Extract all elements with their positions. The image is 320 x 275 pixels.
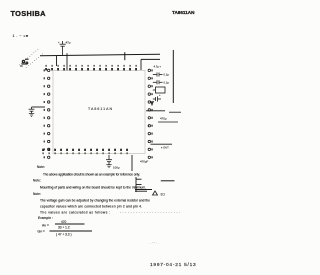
wire: speaker top rail	[161, 180, 175, 182]
capacitor C1 (47uF on bus)	[60, 41, 66, 56]
op-amp IC U1 body outline	[53, 71, 145, 154]
svg-text:capacitor values which are con: capacitor values which are connected bet…	[40, 205, 142, 209]
svg-text:( 47 + 3.3 ): ( 47 + 3.3 )	[56, 233, 72, 237]
svg-text:470μF: 470μF	[140, 160, 148, 164]
svg-text:The voltage gain can be adjust: The voltage gain can be adjusted by chan…	[40, 199, 150, 203]
svg-text:Example :: Example :	[38, 216, 53, 220]
svg-text:The above application circuit: The above application circuit is shown a…	[43, 173, 140, 177]
svg-text:Av =: Av =	[42, 223, 49, 227]
svg-text:Note:: Note:	[33, 179, 41, 183]
ground: left cap ground	[29, 114, 34, 117]
svg-text:+: +	[159, 94, 161, 97]
wire: main top bus (VCC)	[40, 54, 160, 59]
speaker SP1	[153, 191, 158, 195]
svg-text:TA8611AN: TA8611AN	[88, 107, 112, 111]
svg-text:Note:: Note:	[33, 192, 41, 196]
svg-text:TA8611AN: TA8611AN	[172, 10, 195, 15]
svg-text:The values are calculated as f: The values are calculated as follows :	[40, 210, 110, 214]
svg-text:4.7μ +: 4.7μ +	[154, 65, 162, 69]
svg-text:8Ω: 8Ω	[161, 193, 166, 197]
U1 bottom pin row	[42, 149, 128, 155]
svg-text:1 . ~ =■: 1 . ~ =■	[13, 34, 29, 38]
svg-text:470μ: 470μ	[160, 117, 167, 121]
wire: dotted arrow from input to bus	[20, 49, 45, 68]
svg-text:47μ: 47μ	[66, 41, 71, 45]
svg-text:Note:: Note:	[37, 165, 45, 169]
svg-text:▾ OUT: ▾ OUT	[161, 146, 169, 150]
svg-text:Gv =: Gv =	[38, 229, 45, 233]
capacitor C9 (bottom, to ground)	[106, 155, 112, 165]
dotted leader	[120, 211, 180, 213]
U1 right pin column	[148, 69, 153, 158]
wire: right short stub 3	[158, 121, 178, 123]
svg-text:0.1μ: 0.1μ	[164, 80, 170, 84]
wire: right out to label	[151, 143, 173, 145]
wire: pin2 stub down from bus	[56, 56, 58, 67]
wire: output down from U1	[131, 155, 133, 171]
svg-text:470: 470	[61, 220, 67, 224]
svg-text:+: +	[58, 41, 60, 44]
capacitor C3 (right side)	[153, 73, 163, 77]
wire: right output stub 1	[146, 110, 165, 112]
capacitor C6 (electrolytic, right)	[151, 96, 162, 105]
svg-text:TOSHIBA: TOSHIBA	[11, 9, 47, 18]
svg-text:33 + 1.2: 33 + 1.2	[58, 226, 70, 230]
wire: corner stub to pin 15	[140, 59, 142, 70]
svg-text:. . - - . .: . . - - . .	[149, 241, 159, 245]
svg-text:IN: IN	[20, 65, 23, 68]
svg-text:Mounting of parts and wiring o: Mounting of parts and wiring on the boar…	[40, 186, 146, 190]
ground: bottom cap	[106, 165, 111, 168]
input jack J1	[22, 59, 29, 64]
U1 top pin row (pins with numbers)	[45, 65, 137, 71]
node: bus junction tick	[124, 52, 126, 60]
svg-text:100μ: 100μ	[113, 166, 120, 170]
wire: right output stub 2	[169, 111, 181, 113]
wire: right vertical VCC drop	[172, 50, 174, 103]
capacitor C2 (left, to ground)	[29, 107, 35, 114]
svg-text:0.1μ: 0.1μ	[164, 73, 170, 77]
U1 left pin column	[44, 69, 50, 158]
wire: left stub from pin 6	[32, 106, 46, 108]
capacitor C4 (right side)	[153, 80, 163, 84]
capacitor C10 (output coupling)	[135, 177, 152, 192]
resistor R1 (right side box)	[156, 87, 166, 93]
wire: pin4 stub down from bus	[66, 53, 68, 71]
svg-text:1997-04-21 5/13: 1997-04-21 5/13	[150, 262, 196, 268]
